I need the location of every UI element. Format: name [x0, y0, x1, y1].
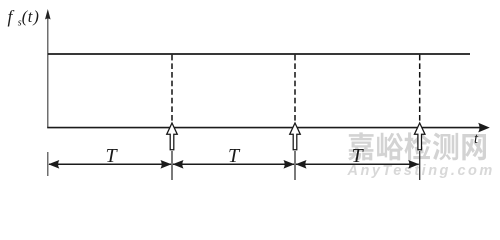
x-axis — [47, 127, 486, 129]
watermark char 峪 — [377, 133, 403, 161]
watermark char 检 — [404, 132, 431, 160]
dimension tick 2 — [294, 151, 296, 180]
watermark 嘉峪检测网 — [348, 132, 486, 160]
dashed line 3 — [419, 55, 421, 121]
dimension tick 3 — [419, 151, 421, 180]
svg-text:fs(t): fs(t) — [8, 6, 39, 28]
dim arrow right 3 — [408, 160, 419, 169]
impulse arrow 1 — [167, 123, 178, 150]
dim arrow right 2 — [284, 160, 295, 169]
dashed line 1 — [171, 55, 173, 121]
dimension line segment 1 — [49, 163, 171, 165]
watermark char 网 — [462, 134, 486, 160]
y-axis — [47, 12, 49, 128]
svg-text:T: T — [228, 145, 241, 167]
x-axis arrowhead — [478, 123, 490, 133]
dimension line segment 3 — [296, 163, 419, 165]
dimension tick 1 — [171, 151, 173, 180]
watermark char 测 — [433, 133, 458, 161]
watermark char 嘉 — [348, 132, 374, 160]
dim arrow right 1 — [161, 160, 172, 169]
dimension tick 0 — [47, 152, 49, 176]
impulse arrow 2 — [290, 123, 301, 150]
dim arrow left 3 — [296, 160, 307, 169]
svg-text:T: T — [106, 145, 119, 167]
svg-text:AnyTesting.com: AnyTesting.com — [347, 163, 495, 179]
top line — [48, 53, 470, 55]
y-axis arrowhead — [45, 9, 51, 20]
dashed line 2 — [294, 55, 296, 121]
dim arrow left 2 — [173, 160, 184, 169]
dimension line segment 2 — [173, 163, 294, 165]
impulse arrow 3 — [414, 123, 425, 150]
svg-text:T: T — [352, 145, 365, 167]
dim arrow left 1 — [48, 160, 59, 169]
